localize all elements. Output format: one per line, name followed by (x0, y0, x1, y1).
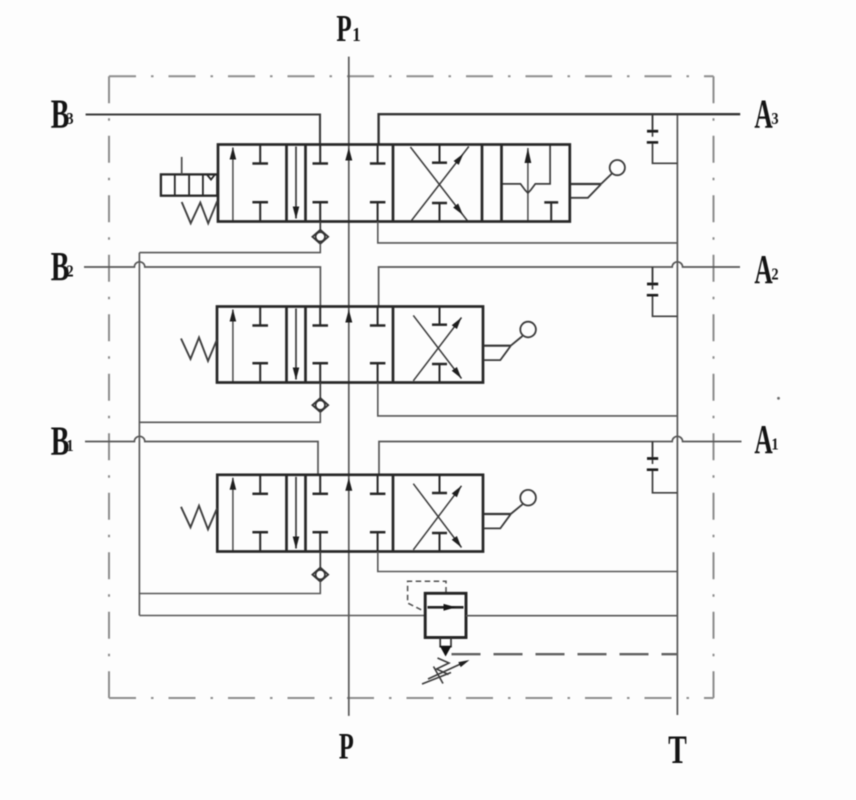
valve V3 P riser arrowhead (345, 478, 352, 491)
svg-text:P: P (339, 726, 354, 767)
detent actuator box of valve V1 (161, 174, 217, 195)
valve V2 bypass neck down arrow (293, 309, 300, 381)
port label T bottom (668, 728, 687, 772)
port label P bottom (339, 726, 354, 767)
valve V3 bypass neck down arrow (293, 477, 300, 549)
wire from check valve CV2 to gallery (139, 412, 320, 422)
lever handle of valve V1 (571, 160, 625, 198)
port label B3 (51, 91, 74, 137)
wire relief valve outlet to T (466, 615, 677, 617)
svg-text:A: A (754, 418, 773, 462)
port label A1 (754, 418, 778, 462)
valve V2 section-a flow arrow (230, 309, 237, 382)
spring of valve V1 (182, 201, 218, 223)
port label A3 (754, 93, 778, 137)
valve V2 P riser arrowhead (345, 310, 352, 323)
valve V1 P riser arrowhead (345, 148, 352, 161)
wire B3 (86, 115, 320, 145)
svg-text:2: 2 (771, 265, 778, 283)
valve V2 crossover section (413, 307, 461, 383)
lever handle of valve V3 (484, 490, 536, 529)
svg-text:P: P (336, 7, 351, 49)
svg-text:1: 1 (771, 435, 778, 453)
wire gallery to relief valve inlet (139, 615, 425, 617)
plugged passage at A2 (647, 267, 678, 316)
valve V1 crossover section (410, 145, 468, 222)
detent pin tick above actuator (181, 157, 183, 175)
port label P1 top (336, 7, 360, 49)
relief valve drain line (dashed) to T (452, 653, 678, 655)
wire from check valve CV1 to gallery (139, 244, 320, 253)
valve V1 float section (502, 145, 559, 222)
valve V2 section-b ports (313, 307, 386, 383)
check valve CV1 under valve V1 (312, 222, 328, 244)
svg-text:A: A (754, 93, 773, 137)
port label A2 (754, 248, 778, 292)
check valve CV3 under valve V3 (312, 552, 328, 582)
stray scan dot (777, 397, 780, 400)
wire valve V1 tank return (378, 222, 678, 243)
valve V3 body (217, 475, 483, 552)
valve V1 body (218, 145, 570, 222)
spring of valve V2 (181, 338, 217, 362)
valve V1 section-a flow arrow (230, 147, 237, 221)
wire T return channel (676, 114, 678, 715)
svg-text:2: 2 (66, 262, 73, 280)
relief valve adjustment arrow (428, 660, 470, 679)
svg-text:A: A (754, 248, 773, 292)
wire A1 (hop over T channel) (379, 436, 742, 474)
wire valve V3 tank return (378, 552, 678, 572)
valve V3 crossover section (413, 475, 461, 552)
wire A3 (379, 114, 741, 144)
relief valve seat and poppet arrow (440, 638, 452, 657)
lever handle of valve V2 (484, 322, 536, 360)
svg-text:3: 3 (771, 110, 778, 128)
valve V1 section-a blocked ports (252, 145, 268, 222)
wire B1 (hop over gallery) (85, 436, 318, 475)
valve V2 body (217, 307, 483, 383)
valve V3 section-b ports (313, 475, 386, 552)
wire P supply line P1-P (348, 57, 350, 716)
plugged passage at A1 (647, 442, 678, 493)
valve V3 section-a blocked ports (252, 475, 268, 552)
valve V3 section-a flow arrow (230, 477, 237, 550)
relief valve spring (422, 658, 451, 684)
relief valve RV pilot line (dashed) (408, 581, 446, 612)
valve V1 bypass neck down arrow (293, 147, 300, 220)
svg-text:1: 1 (66, 437, 73, 455)
spring of valve V3 (181, 506, 217, 530)
enclosure border (dash-dot) (109, 76, 714, 698)
plugged passage at A3 (647, 114, 678, 163)
svg-text:1: 1 (352, 24, 361, 47)
wire from check valve CV3 to gallery (139, 582, 320, 594)
relief valve RV body (425, 593, 466, 637)
wire parallel gallery vertical (138, 253, 140, 616)
port label B2 (51, 244, 74, 290)
check valve CV2 under valve V2 (312, 383, 328, 413)
wire A2 (hop over T channel) (379, 262, 740, 307)
wire valve V2 tank return (378, 383, 678, 416)
valve V1 section-b ports (313, 145, 386, 222)
port label B1 (51, 418, 74, 464)
valve V2 section-a blocked ports (252, 307, 268, 383)
wire B2 (hop over gallery) (84, 262, 320, 307)
svg-text:T: T (668, 728, 687, 772)
svg-text:3: 3 (66, 110, 73, 128)
